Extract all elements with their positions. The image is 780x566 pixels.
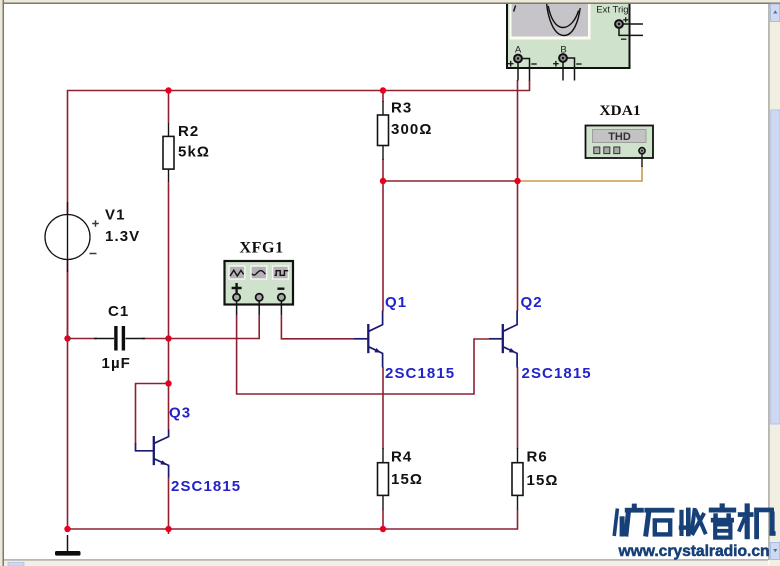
- wire node down to Q2 collector: [517, 181, 519, 311]
- svg-text:V1: V1: [105, 207, 126, 224]
- junction Q3 collector node: [165, 380, 171, 386]
- scrollbar thumb: [771, 110, 780, 424]
- wire XDA1 output orange: [518, 166, 643, 181]
- wire Q1 emitter down to R4: [382, 367, 384, 449]
- resistor R6: [517, 448, 519, 463]
- transistor Q1: [354, 311, 383, 368]
- svg-text:1.3V: 1.3V: [105, 228, 140, 245]
- watermark glyph shi: [644, 508, 674, 537]
- junction R3 bottom node: [380, 178, 386, 184]
- junction C1 left: [64, 335, 70, 341]
- canvas bottom edge line: [4, 559, 768, 560]
- transistor Q2: [489, 311, 517, 368]
- wire Q3 diode loop: [136, 384, 169, 445]
- wire Q3 collector stub: [168, 384, 170, 431]
- window top border: [0, 0, 780, 3]
- svg-text:2SC1815: 2SC1815: [385, 365, 455, 382]
- wire Q3 emitter to bottom rail: [168, 477, 170, 534]
- svg-text:Q3: Q3: [169, 405, 191, 422]
- svg-text:www.crystalradio.cn: www.crystalradio.cn: [618, 543, 770, 560]
- wire node to Q1 collector: [382, 181, 384, 311]
- junction R2 top: [165, 87, 171, 93]
- svg-text:Q1: Q1: [385, 294, 407, 311]
- wire Q2 emitter down to R6: [517, 367, 519, 449]
- wire C1 row to XFG1 COM: [169, 314, 260, 339]
- svg-text:5kΩ: 5kΩ: [178, 144, 210, 161]
- svg-text:15Ω: 15Ω: [391, 471, 423, 488]
- resistor R3: [382, 101, 384, 115]
- junction scope node: [514, 178, 520, 184]
- svg-text:1µF: 1µF: [102, 355, 131, 372]
- wire XFG1 plus down-right-up to Q2 base: [237, 314, 489, 394]
- canvas right edge line: [768, 4, 769, 560]
- wire R3 node horizontal: [383, 180, 518, 182]
- junction Q3 emitter at rail: [165, 526, 171, 532]
- resistor R2: [168, 123, 170, 136]
- svg-text:XDA1: XDA1: [600, 102, 641, 119]
- svg-text:R6: R6: [527, 449, 548, 466]
- wire C1 node down to Q3 collector node: [168, 339, 170, 384]
- source V1: [67, 202, 69, 272]
- window left border: [0, 0, 3, 566]
- capacitor C1: [68, 338, 98, 340]
- wire scope A+ down to node: [517, 80, 519, 181]
- svg-text:2SC1815: 2SC1815: [522, 365, 592, 382]
- wire top rail: [68, 80, 530, 339]
- transistor Q3: [136, 430, 169, 478]
- svg-text:R3: R3: [391, 100, 412, 117]
- svg-text:R2: R2: [178, 123, 199, 140]
- watermark glyph yin: [709, 503, 736, 537]
- wire R3 top stub: [382, 91, 384, 103]
- watermark glyph shou: [679, 508, 706, 537]
- wire R3 bottom to node: [382, 159, 384, 181]
- wire R4 bottom to rail: [382, 509, 384, 529]
- watermark glyph kuang: [614, 504, 644, 537]
- ground: [67, 535, 69, 551]
- svg-text:THD: THD: [608, 131, 631, 143]
- scrollbar up button: [771, 4, 780, 22]
- svg-text:Q2: Q2: [521, 294, 543, 311]
- svg-text:R4: R4: [391, 449, 412, 466]
- junction ground node: [64, 526, 70, 532]
- svg-text:15Ω: 15Ω: [527, 472, 559, 489]
- wire R2 branch upper: [168, 91, 170, 124]
- function generator XFG1: [225, 240, 294, 315]
- wire XFG1 minus to Q1 base: [281, 314, 354, 339]
- horizontal scrollbar left button top: [8, 562, 24, 566]
- svg-text:300Ω: 300Ω: [391, 121, 432, 138]
- junction C1 right: [165, 335, 171, 341]
- svg-text:2SC1815: 2SC1815: [171, 478, 241, 495]
- wire bottom rail: [68, 509, 518, 529]
- wire left rail lower: [67, 270, 69, 529]
- watermark glyph ji: [738, 503, 776, 539]
- svg-text:Ext Trig: Ext Trig: [596, 5, 628, 16]
- junction R3 top: [380, 87, 386, 93]
- scrollbar down button: [771, 543, 780, 560]
- junction R4 bottom: [380, 526, 386, 532]
- oscilloscope XSC1: [507, 0, 643, 81]
- svg-text:XFG1: XFG1: [240, 240, 284, 257]
- svg-text:C1: C1: [108, 303, 129, 320]
- distortion analyzer XDA1: [586, 102, 654, 167]
- horizontal scrollbar strip: [4, 561, 768, 566]
- wire R2 bottom to C1 node: [168, 182, 170, 339]
- vertical scrollbar track: [770, 4, 780, 566]
- resistor R4: [382, 448, 384, 463]
